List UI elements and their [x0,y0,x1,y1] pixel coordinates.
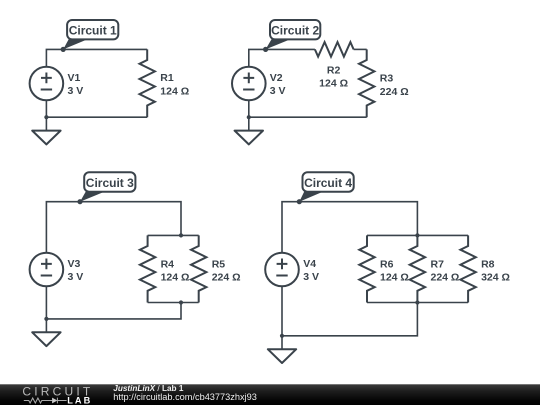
svg-text:R8: R8 [481,258,495,270]
junction C3 rail bottom [179,300,183,304]
svg-text:R2: R2 [327,64,341,76]
resistor R2 [315,42,354,57]
wire C4 top rail [367,234,468,236]
ground C2 [235,117,263,144]
resistor R4 [140,235,155,302]
callout Circuit 3 [80,172,135,201]
wire C3 bottom rail [148,302,199,304]
resistor R5 [191,235,206,302]
junction C4 bottom-left [280,334,284,338]
svg-text:R6: R6 [380,258,394,270]
svg-text:224 Ω: 224 Ω [212,272,241,284]
svg-text:R3: R3 [380,72,394,84]
svg-text:224 Ω: 224 Ω [380,86,409,98]
svg-text:R7: R7 [431,258,445,270]
junction C4 rail top [415,233,419,237]
wire C4 bottom [282,286,417,336]
resistor R7 [410,235,425,302]
svg-text:3 V: 3 V [270,85,286,97]
svg-text:124 Ω: 124 Ω [380,272,409,284]
node C3 callout anchor [77,199,82,204]
junction C1 bottom-left [44,115,48,119]
callout Circuit 4 [299,172,353,201]
junction C3 rail top [179,233,183,237]
resistor R1 [140,49,155,117]
wire C3 top [46,202,181,253]
svg-text:V2: V2 [270,72,283,84]
ground C1 [32,117,60,144]
svg-text:124 Ω: 124 Ω [319,78,348,90]
resistor R3 [359,49,374,117]
svg-text:V4: V4 [303,258,316,270]
wire C4 bottom rail [367,302,468,304]
svg-text:Circuit 4: Circuit 4 [304,176,352,190]
svg-text:3 V: 3 V [68,85,84,97]
callout Circuit 1 [63,20,118,49]
junction C3 bottom-left [44,317,48,321]
svg-text:Circuit 2: Circuit 2 [271,24,319,38]
resistor R6 [359,235,374,302]
svg-text:324 Ω: 324 Ω [481,272,510,284]
wire C4 top [282,202,417,253]
svg-text:V1: V1 [68,72,81,84]
wire C2 top-left [249,49,315,66]
svg-text:V3: V3 [68,258,81,270]
wire C1 bottom [46,100,147,117]
svg-text:R4: R4 [161,258,175,270]
svg-text:224 Ω: 224 Ω [431,272,460,284]
svg-text:Circuit 1: Circuit 1 [69,24,117,38]
svg-text:R5: R5 [212,258,226,270]
svg-text:LAB: LAB [67,396,92,405]
wire C1 top [46,49,147,66]
voltage source V4 [265,253,299,287]
node C1 callout anchor [61,47,66,52]
junction C4 rail bottom [415,300,419,304]
svg-text:124 Ω: 124 Ω [160,86,189,98]
voltage source V3 [30,253,64,287]
svg-text:R1: R1 [160,72,174,84]
logo resistor-diode glyph [24,398,52,403]
svg-text:124 Ω: 124 Ω [161,272,190,284]
svg-text:3 V: 3 V [68,271,84,283]
callout Circuit 2 [266,20,321,49]
voltage source V2 [232,67,266,101]
svg-text:3 V: 3 V [303,271,319,283]
ground C3 [32,319,60,346]
ground C4 [268,336,296,363]
resistor R8 [460,235,475,302]
node C2 callout anchor [263,47,268,52]
node C4 callout anchor [297,199,302,204]
svg-text:Circuit 3: Circuit 3 [86,176,134,190]
wire C2 bottom [249,100,367,117]
junction C2 bottom-left [247,115,251,119]
wire C2 top-right [354,48,367,50]
wire C3 bottom [46,286,181,319]
voltage source V1 [30,67,64,101]
svg-text:http://circuitlab.com/cb43773z: http://circuitlab.com/cb43773zhxj93 [113,392,257,402]
wire C3 top rail [148,234,199,236]
